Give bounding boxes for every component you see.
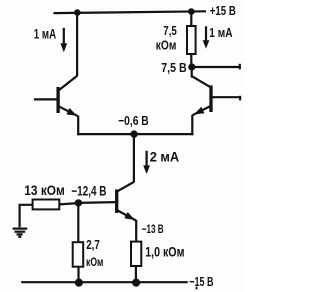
terminal tick: Q2 base end <box>239 96 241 101</box>
wire: Q1 collector riser <box>76 13 78 76</box>
svg-text:13 кОм: 13 кОм <box>24 182 65 198</box>
node: junction dot top rail / Q1 collector <box>74 9 81 16</box>
transistor Q3 emitter lead with arrow <box>118 210 137 220</box>
resistor R2 2,7 kOhm body <box>73 242 84 267</box>
wire: Q2 base lead <box>212 96 240 98</box>
wire: R2 top lead <box>77 203 79 242</box>
current arrow: 1 mA right branch <box>203 26 210 48</box>
svg-text:1 мА: 1 мА <box>209 26 232 40</box>
wire: Q3 emitter drop <box>135 220 137 242</box>
current arrow: 2 mA tail <box>143 151 150 174</box>
transistor Q2 collector lead <box>192 76 211 87</box>
svg-text:1,0 кОм: 1,0 кОм <box>145 244 184 259</box>
resistor R1 7,5 kOhm body <box>187 26 196 54</box>
wire: common emitter rail <box>77 133 193 135</box>
svg-text:7,5 В: 7,5 В <box>161 60 186 75</box>
node: junction dot top rail / R1 top <box>188 8 195 15</box>
wire: R1 bottom lead <box>190 55 192 68</box>
wire: Q2 emitter drop <box>191 115 193 135</box>
svg-text:−15 В: −15 В <box>189 274 213 289</box>
wire: tail current riser <box>133 134 135 182</box>
svg-text:кОм: кОм <box>156 38 177 52</box>
svg-text:−12,4 В: −12,4 В <box>71 183 106 198</box>
transistor Q1 collector lead <box>59 76 78 91</box>
wire: R1 top lead <box>190 12 192 26</box>
node: base node dot -12,4 V <box>75 199 82 206</box>
current arrow: 1 mA left branch <box>60 28 67 53</box>
wire: Q1 emitter drop <box>77 116 79 136</box>
transistor Q1 emitter lead with arrow <box>59 106 78 116</box>
wire: R3 right lead <box>59 203 78 204</box>
node: junction dot R4 / bottom rail <box>132 279 140 287</box>
transistor Q2 emitter lead with arrow <box>193 106 210 115</box>
resistor R3 13 kOhm body <box>33 200 60 210</box>
transistor Q3 base bar <box>115 190 118 214</box>
wire: Q2 collector riser <box>191 67 194 77</box>
svg-text:+15 В: +15 В <box>210 3 236 18</box>
node: junction dot R2 / bottom rail <box>75 279 83 287</box>
ground symbol <box>13 229 28 237</box>
transistor Q3 collector lead <box>117 182 134 192</box>
wire: -15V bottom rail <box>21 281 188 283</box>
node: emitter junction dot -0,6 V <box>130 130 137 137</box>
svg-text:1 мА: 1 мА <box>34 27 56 42</box>
svg-text:кОм: кОм <box>86 257 103 269</box>
transistor Q2 base bar <box>209 85 212 112</box>
wire: Q3 base lead <box>78 201 115 204</box>
wire: R2 bottom lead <box>77 267 79 283</box>
transistor Q1 base bar <box>56 87 59 113</box>
comma mark under -15 В (scan artifact) <box>196 287 198 290</box>
wire: R3 left lead down to ground <box>20 205 33 227</box>
node: output node dot 7,5 V <box>188 63 195 70</box>
wire: +15V top rail <box>54 11 207 13</box>
wire: R4 bottom lead <box>135 266 137 282</box>
svg-text:−0,6 В: −0,6 В <box>118 113 149 128</box>
svg-text:2 мА: 2 мА <box>150 149 180 165</box>
resistor R4 1,0 kOhm body <box>131 242 141 266</box>
svg-text:7,5: 7,5 <box>163 24 177 38</box>
terminal tick: output end <box>239 64 241 70</box>
svg-text:2,7: 2,7 <box>86 238 100 252</box>
wire: Q1 base lead <box>34 98 57 100</box>
svg-text:−13 В: −13 В <box>142 222 164 236</box>
wire: output lead to terminal <box>192 66 240 68</box>
